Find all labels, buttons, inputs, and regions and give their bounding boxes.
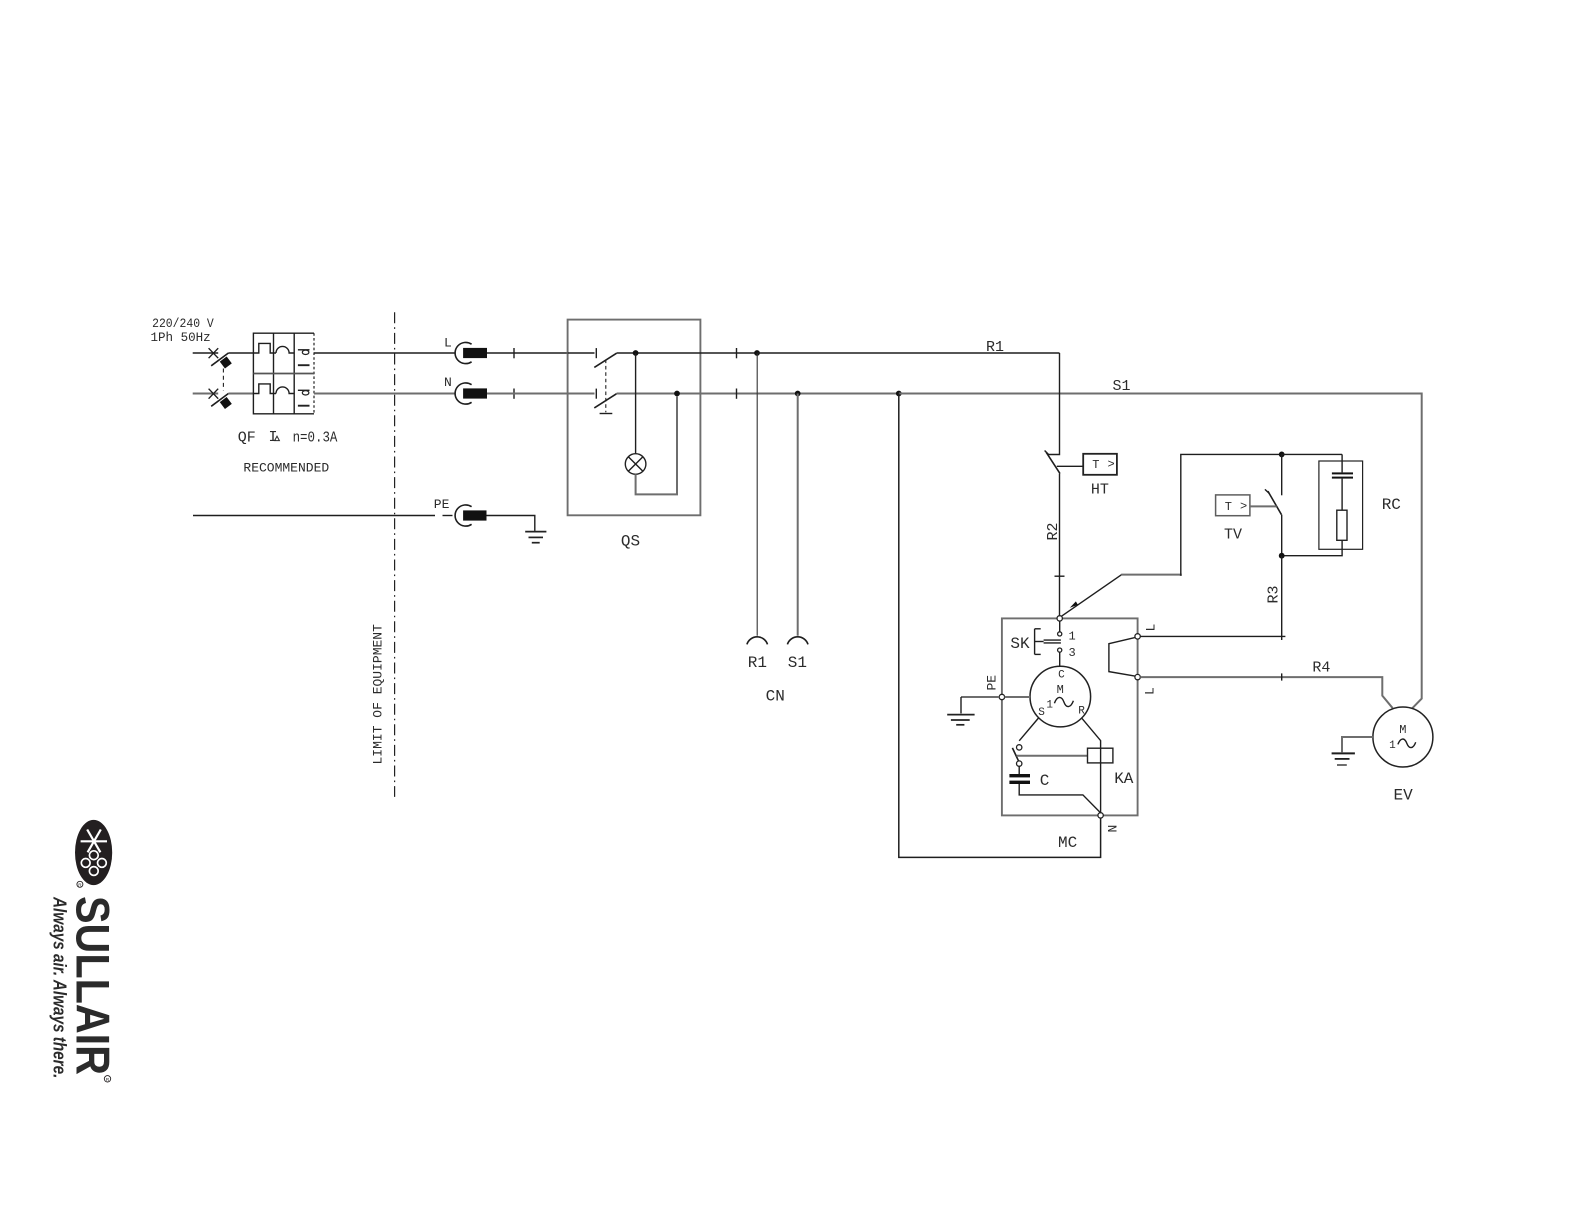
svg-text:R4: R4 xyxy=(1312,659,1330,676)
ground MC xyxy=(947,697,974,725)
wire EV ground xyxy=(1342,737,1373,752)
svg-text:1: 1 xyxy=(1389,740,1396,752)
wire L through QS xyxy=(617,352,757,354)
svg-text:M: M xyxy=(1399,723,1406,737)
node R1 xyxy=(754,350,760,356)
QS pole L xyxy=(568,348,617,367)
svg-text:M: M xyxy=(1057,683,1064,697)
svg-text:N: N xyxy=(444,375,452,390)
ground PE xyxy=(525,532,546,543)
wire PE to ground xyxy=(487,516,535,531)
wire KA to N xyxy=(1100,763,1102,813)
connector CN R1 arc xyxy=(747,637,768,645)
wire node to RC xyxy=(1282,453,1342,455)
Sullair wordmark xyxy=(67,896,120,1083)
svg-text:L: L xyxy=(1143,687,1158,695)
svg-text:R1: R1 xyxy=(748,654,767,672)
wire N incoming xyxy=(193,393,219,395)
wire PE to motor xyxy=(961,696,1030,698)
capacitor RC xyxy=(1332,472,1353,478)
svg-text:220/240 V: 220/240 V xyxy=(152,316,214,331)
node TV top xyxy=(1279,452,1285,458)
svg-text:RC: RC xyxy=(1382,496,1401,514)
switch TV blade xyxy=(1268,491,1282,515)
label QF rating xyxy=(238,429,338,447)
wire RC top xyxy=(1341,454,1343,472)
motor M compressor xyxy=(1030,666,1091,727)
switch centrifugal S xyxy=(1012,745,1022,767)
wire SK actuator arm xyxy=(1060,575,1122,618)
QF magnetic element L xyxy=(276,346,294,353)
svg-text:L: L xyxy=(444,335,452,350)
wire CN S1 drop xyxy=(797,394,799,636)
fuse X mark N xyxy=(209,389,219,399)
wire RC bottom xyxy=(1282,540,1342,555)
breaker QF mechanical link dashed xyxy=(222,369,224,391)
node N main xyxy=(896,391,902,397)
svg-text:SK: SK xyxy=(1010,635,1030,653)
svg-text:MC: MC xyxy=(1058,834,1077,852)
contact tick TV xyxy=(1265,489,1269,493)
node R3 xyxy=(1279,553,1285,559)
svg-text:R1: R1 xyxy=(986,339,1004,356)
label 220/240V supply xyxy=(151,316,214,345)
connector PE xyxy=(434,497,487,526)
svg-text:R: R xyxy=(106,1077,110,1083)
QS mechanical link dashed xyxy=(600,360,613,414)
svg-text:L: L xyxy=(1144,624,1159,632)
wire N through QS xyxy=(617,393,899,395)
QF magnetic element N xyxy=(276,387,294,394)
svg-text:>: > xyxy=(1108,458,1115,472)
wire TV upper xyxy=(1281,454,1283,495)
motor EV fan xyxy=(1373,707,1433,767)
limit of equipment dashed line xyxy=(394,312,396,797)
breaker QF box xyxy=(253,333,314,414)
wire S1 run xyxy=(899,394,1422,709)
wire lamp feed xyxy=(635,353,637,454)
tick R2 xyxy=(1055,575,1065,577)
svg-text:QS: QS xyxy=(621,533,640,551)
svg-text:QF: QF xyxy=(238,430,256,447)
switch SK contact xyxy=(1044,621,1062,666)
svg-text:EV: EV xyxy=(1394,786,1414,804)
node lamp L xyxy=(633,350,639,356)
switch HT blade xyxy=(1046,452,1060,473)
contact tick HT xyxy=(1045,451,1049,455)
svg-text:HT: HT xyxy=(1091,482,1109,499)
tick L after QS xyxy=(736,348,738,358)
svg-text:R3: R3 xyxy=(1266,585,1283,603)
wire to capacitor xyxy=(1018,766,1020,774)
wire CN R1 drop xyxy=(756,353,758,636)
svg-text:N: N xyxy=(1106,825,1121,833)
lamp QS xyxy=(625,454,646,475)
wire L connector to QS xyxy=(487,352,568,354)
ground EV xyxy=(1332,753,1355,765)
tick R4 xyxy=(1281,673,1283,680)
thermostat TV box xyxy=(1216,495,1250,516)
svg-text:3: 3 xyxy=(1069,646,1076,660)
svg-text:1Ph 50Hz: 1Ph 50Hz xyxy=(151,330,211,345)
svg-text:n=0.3A: n=0.3A xyxy=(293,429,338,446)
svg-text:T: T xyxy=(1092,458,1099,472)
wire R4 run xyxy=(1140,677,1392,708)
fuse X mark L xyxy=(209,348,219,358)
QF trip indicator L xyxy=(298,350,310,365)
svg-text:S1: S1 xyxy=(788,654,807,672)
svg-text:TV: TV xyxy=(1224,526,1242,543)
QF trip indicator N xyxy=(298,390,310,405)
svg-text:S1: S1 xyxy=(1113,378,1131,395)
wire L QF to connector xyxy=(314,352,455,354)
wire RC mid xyxy=(1341,479,1343,511)
svg-text:1: 1 xyxy=(1046,699,1053,711)
node S1 xyxy=(795,391,801,397)
wire motor S to switch xyxy=(1019,718,1038,741)
terminal PE MC xyxy=(999,694,1004,699)
contactor MC box xyxy=(1002,618,1138,815)
wire L upper to R3 xyxy=(1140,635,1285,637)
wire TV lower xyxy=(1281,515,1283,556)
wire capacitor return xyxy=(1019,784,1100,813)
node lamp N xyxy=(674,391,680,397)
wire N return run xyxy=(899,394,1101,858)
switch QS box xyxy=(568,320,701,516)
wire R3 xyxy=(1281,556,1283,640)
wire R2 xyxy=(1059,474,1061,617)
RC network box xyxy=(1319,461,1363,549)
plug funnel MC xyxy=(1109,638,1135,677)
wire motor R to KA xyxy=(1082,718,1101,748)
connector CN S1 arc xyxy=(787,637,808,645)
svg-text:PE: PE xyxy=(434,497,450,512)
wire lamp return xyxy=(636,397,677,495)
svg-text:S: S xyxy=(1038,707,1045,719)
capacitor C xyxy=(1009,774,1030,784)
QF thermal element L xyxy=(253,343,276,353)
svg-text:RECOMMENDED: RECOMMENDED xyxy=(243,461,329,476)
svg-text:Always air. Always there.: Always air. Always there. xyxy=(50,896,70,1078)
terminal L lower xyxy=(1135,674,1140,679)
switch SK operator bracket xyxy=(1035,629,1044,655)
svg-text:SULLAIR: SULLAIR xyxy=(67,896,120,1075)
thermostat HT box xyxy=(1083,454,1117,475)
QS pole N xyxy=(568,389,617,408)
wire N blade to QF xyxy=(228,393,253,395)
relay KA box xyxy=(1088,748,1113,763)
svg-text:CN: CN xyxy=(766,688,785,706)
svg-text:KA: KA xyxy=(1114,770,1134,788)
wire N connector to QS xyxy=(487,393,568,395)
wire TV box to blade xyxy=(1250,505,1277,507)
wire PE incoming xyxy=(193,515,453,517)
connector N xyxy=(444,375,487,404)
wire HT to box xyxy=(1057,465,1083,467)
Sullair logo mark xyxy=(75,820,112,887)
connector L xyxy=(444,335,487,363)
resistor RC xyxy=(1337,510,1347,540)
breaker blade N pole xyxy=(211,394,232,410)
svg-text:LIMIT OF EQUIPMENT: LIMIT OF EQUIPMENT xyxy=(371,624,386,765)
wire R1 drop to HT xyxy=(1048,353,1059,455)
svg-text:R2: R2 xyxy=(1045,522,1062,540)
tick N wire xyxy=(513,389,515,399)
svg-text:C: C xyxy=(1040,772,1050,790)
breaker blade L pole xyxy=(211,353,232,369)
wire R1 top run xyxy=(757,352,1060,354)
terminal N MC xyxy=(1098,813,1103,818)
svg-text:T: T xyxy=(1225,500,1232,514)
svg-text:PE: PE xyxy=(985,675,1000,691)
QF thermal element N xyxy=(253,384,276,394)
svg-text:1: 1 xyxy=(1069,630,1076,644)
terminal MC top xyxy=(1057,616,1062,621)
svg-text:R: R xyxy=(1078,706,1085,718)
arrowhead SK arm xyxy=(1070,601,1078,607)
wire L blade to QF xyxy=(228,352,253,354)
wire switch to KA xyxy=(1017,755,1088,757)
tick L wire xyxy=(513,348,515,358)
tick N after QS xyxy=(736,389,738,399)
svg-text:C: C xyxy=(1058,669,1065,681)
terminal L upper xyxy=(1135,634,1140,639)
wire L incoming xyxy=(193,352,219,354)
svg-text:>: > xyxy=(1240,500,1247,514)
wire N QF to connector xyxy=(314,393,455,395)
